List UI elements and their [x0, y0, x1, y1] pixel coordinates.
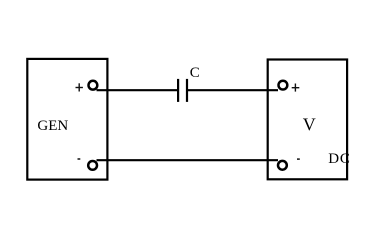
label + of V [292, 84, 300, 92]
generator box GEN [27, 59, 107, 180]
wire top right (capacitor to V + terminal) [187, 89, 278, 91]
svg-text:V: V [303, 115, 316, 135]
terminal + of GEN [89, 81, 98, 90]
voltmeter box V [268, 60, 347, 180]
label - of GEN [78, 158, 81, 159]
svg-text:DC: DC [328, 151, 350, 167]
wire bottom (GEN - terminal to V - terminal) [97, 159, 279, 161]
capacitor C left plate [177, 79, 179, 102]
svg-text:C: C [190, 65, 200, 81]
terminal - of V [278, 161, 287, 170]
terminal + of V [279, 81, 288, 90]
svg-text:GEN: GEN [37, 118, 68, 134]
capacitor C right plate [186, 79, 188, 102]
wire top left (GEN + terminal to capacitor) [97, 89, 179, 91]
terminal - of GEN [88, 161, 97, 170]
label - of V [297, 158, 300, 159]
label + of GEN [76, 83, 83, 91]
